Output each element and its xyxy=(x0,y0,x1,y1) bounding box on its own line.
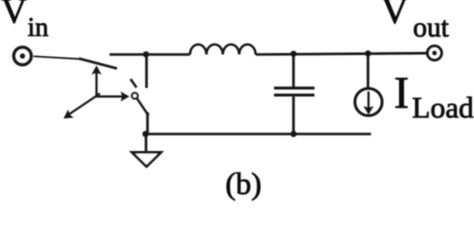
svg-text:V: V xyxy=(381,0,409,32)
svg-text:I: I xyxy=(394,68,409,118)
svg-text:(b): (b) xyxy=(225,166,261,201)
svg-text:out: out xyxy=(413,13,449,44)
svg-text:V: V xyxy=(1,0,27,31)
svg-text:in: in xyxy=(28,12,50,42)
svg-text:Load: Load xyxy=(412,92,474,125)
